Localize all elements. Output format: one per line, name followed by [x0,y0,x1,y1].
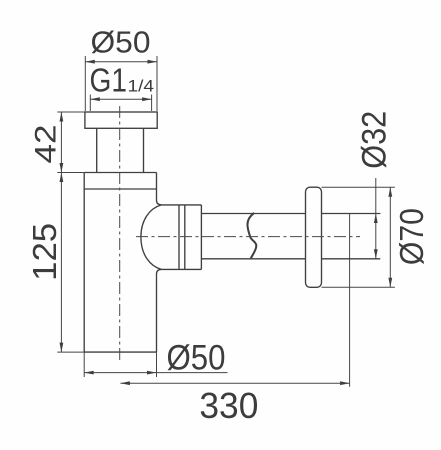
pipe top edge left of flange [201,213,305,215]
pipe break squiggle [247,213,256,259]
arrow O70 up [388,187,392,197]
neck right edge [143,128,145,172]
junction dome bottom edge [161,268,201,270]
dim line O50 bottom [84,372,227,374]
dim line O70 [389,187,391,287]
dim line O50 top [85,61,157,63]
cap nut top [85,112,157,128]
svg-text:330: 330 [199,385,258,426]
arrow O70 down [388,278,392,288]
dim line G1 1/4 [90,98,151,100]
body right edge upper [157,173,162,205]
neck left edge [96,128,98,172]
arrow O50 top left [85,60,95,64]
body top edge [84,172,156,174]
arrow 330 right [340,381,350,385]
body left edge [83,173,85,353]
arrow O32 up [374,214,378,224]
junction dome top edge [161,204,201,206]
arrow O50 bottom right [147,371,157,375]
wall flange [306,187,322,287]
dim line 42 and 125 shared vertical [60,112,62,352]
ext line 42/125 middle (body top, extends left) [57,172,84,174]
arrow G1 right [142,97,152,101]
dim line 330 [120,382,349,384]
arrow O50 bottom left [84,371,94,375]
centerline vertical (body axis) [119,106,121,362]
pipe bottom edge left of flange [201,258,305,260]
pipe bottom edge right of flange [322,258,381,260]
arrow 125 down [60,343,64,353]
body flange line [84,188,156,190]
ext line O50 top left [84,56,86,111]
svg-text:Ø70: Ø70 [393,208,430,265]
svg-text:42: 42 [30,125,63,164]
centerline horizontal (pipe axis) [136,236,360,238]
svg-text:Ø50: Ø50 [167,339,226,378]
svg-text:125: 125 [26,223,63,281]
ext line G1 left [89,95,91,112]
body bottom edge [84,351,156,353]
arrow 42 up [60,112,64,122]
junction ring line 2 [184,205,186,270]
ext line O70 bottom (flange bottom, extends right) [322,286,395,288]
junction dome arc [141,205,162,270]
ext line O50 top right [156,56,158,111]
arrow G1 left [90,97,100,101]
arrow 42 down [60,163,64,173]
pipe top edge right of flange [322,213,381,215]
ext line O50 bottom right (body right edge extended) [156,352,158,377]
dim line O32 [375,178,377,259]
ext line 330 right (pipe end, extends down) [349,214,351,387]
ext line O32 top [376,213,380,215]
arrow 330 left [120,381,129,385]
svg-text:Ø50: Ø50 [91,25,151,60]
svg-text:1/4: 1/4 [128,76,155,95]
svg-text:Ø32: Ø32 [356,111,394,169]
body right edge lower [157,269,162,352]
svg-text:G1: G1 [90,61,128,98]
junction ring line 1 [178,205,180,270]
ext line O50 bottom left (body left edge extended) [83,352,85,377]
arrow O32 down [374,249,378,259]
arrow O50 top right [148,60,158,64]
arrow 125 up [60,173,64,183]
ext line 125 bottom (body bottom, extends left) [57,351,84,353]
ext line O70 top (flange top, extends right) [322,186,395,188]
junction right edge [200,205,202,270]
ext line G1 right [151,95,153,112]
ext line 42 top (cap top, extends left) [57,111,85,113]
